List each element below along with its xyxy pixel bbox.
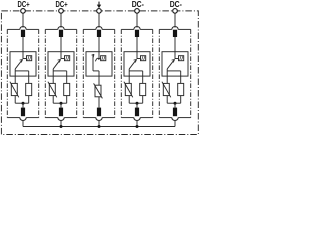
svg-text:DC-: DC- (170, 0, 182, 9)
svg-text:DC-: DC- (132, 0, 144, 9)
svg-text:DC+: DC+ (18, 0, 30, 9)
svg-text:DC+: DC+ (56, 0, 68, 9)
